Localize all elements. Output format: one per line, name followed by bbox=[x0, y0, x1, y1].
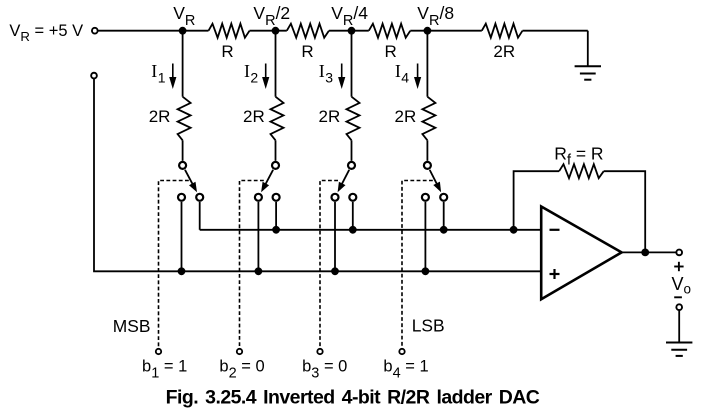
terminal bit b2 bbox=[237, 349, 242, 354]
wire branch 2 to switch pole bbox=[275, 140, 277, 161]
current arrow I1 bbox=[169, 64, 176, 90]
svg-text:VR/4: VR/4 bbox=[331, 3, 368, 29]
wire branch 1 to switch pole bbox=[182, 140, 184, 161]
wire branch 1 from rail bbox=[182, 31, 184, 97]
svg-text:R: R bbox=[221, 42, 233, 61]
terminal bit b1 bbox=[156, 349, 161, 354]
svg-text:VR/2: VR/2 bbox=[253, 3, 290, 29]
svg-text:2R: 2R bbox=[395, 107, 417, 126]
junction b4 on +bus bbox=[422, 267, 430, 275]
op-amp U1 bbox=[541, 207, 621, 300]
dashed control line bit b4 bbox=[402, 181, 433, 348]
junction b3 on -bus bbox=[349, 226, 357, 234]
svg-text:MSB: MSB bbox=[113, 316, 151, 336]
node VR/2 bbox=[272, 27, 280, 35]
current arrow I3 bbox=[338, 64, 345, 90]
wire b4 left throw to +bus bbox=[424, 202, 426, 271]
svg-text:3: 3 bbox=[325, 70, 333, 86]
svg-text:2R: 2R bbox=[243, 107, 265, 126]
resistor R (VR to VR/2) bbox=[209, 24, 250, 38]
svg-text:2: 2 bbox=[250, 70, 258, 86]
svg-text:I: I bbox=[395, 61, 401, 81]
resistor 2R branch 3 bbox=[347, 97, 360, 141]
svg-text:R: R bbox=[384, 42, 396, 61]
wire branch 2 from rail bbox=[275, 31, 277, 97]
node VR/4 bbox=[348, 27, 356, 35]
wire branch 3 to switch pole bbox=[351, 140, 353, 161]
wire non-inverting bus (+) bbox=[94, 79, 541, 272]
label + polarity bbox=[674, 266, 683, 268]
svg-text:2R: 2R bbox=[149, 107, 171, 126]
junction b2 on -bus bbox=[272, 226, 280, 234]
wire b1 right throw to -bus bbox=[199, 202, 201, 230]
resistor 2R branch 4 bbox=[422, 97, 435, 141]
wire top rail to ground bbox=[523, 30, 588, 32]
wire feedback left bbox=[514, 171, 560, 230]
svg-text:R: R bbox=[301, 42, 313, 61]
ground (ladder termination) bbox=[575, 31, 601, 80]
ground (output reference) bbox=[666, 310, 692, 356]
junction b2 on +bus bbox=[255, 267, 263, 275]
terminal Vo + bbox=[676, 250, 682, 256]
terminal VR supply input bbox=[92, 28, 98, 34]
node VR/8 bbox=[424, 27, 432, 35]
svg-text:I: I bbox=[319, 61, 325, 81]
node VR bbox=[179, 27, 187, 35]
svg-text:2R: 2R bbox=[319, 107, 341, 126]
wire op-amp output bbox=[622, 251, 677, 253]
wire feedback right bbox=[604, 171, 646, 252]
wire top rail VR node segment bbox=[98, 30, 209, 32]
resistor 2R branch 1 bbox=[178, 97, 191, 141]
terminal +bus left bbox=[91, 73, 97, 79]
svg-text:1: 1 bbox=[158, 70, 166, 86]
svg-text:Fig. 3.25.4 Inverted 4-bit R/2: Fig. 3.25.4 Inverted 4-bit R/2R ladder D… bbox=[166, 387, 540, 409]
dashed control line bit b2 bbox=[240, 181, 264, 348]
resistor R (VR/2 to VR/4) bbox=[287, 24, 329, 38]
wire b3 left throw to +bus bbox=[334, 202, 336, 271]
wire top rail segment VR/2 bbox=[250, 30, 287, 32]
wire branch 3 from rail bbox=[351, 31, 353, 97]
switch S4 (bit b4) bbox=[422, 162, 447, 201]
svg-text:LSB: LSB bbox=[412, 316, 445, 336]
wire branch 4 to switch pole bbox=[426, 140, 428, 161]
svg-text:Vo: Vo bbox=[672, 274, 692, 297]
wire b3 right throw to -bus bbox=[352, 202, 354, 230]
junction feedback tap on -bus bbox=[510, 226, 518, 234]
current arrow I2 bbox=[262, 64, 269, 90]
svg-text:2R: 2R bbox=[493, 42, 515, 61]
resistor 2R terminating bbox=[482, 24, 523, 38]
svg-text:VR/8: VR/8 bbox=[417, 3, 454, 29]
wire b1 left throw to +bus bbox=[181, 202, 183, 271]
wire b2 right throw to -bus bbox=[275, 202, 277, 230]
wire branch 4 from rail bbox=[426, 31, 428, 97]
svg-text:b2 = 0: b2 = 0 bbox=[219, 357, 264, 381]
svg-text:I: I bbox=[151, 61, 157, 81]
svg-text:b3 = 0: b3 = 0 bbox=[302, 357, 347, 381]
terminal bit b3 bbox=[317, 349, 322, 354]
svg-text:VR = +5 V: VR = +5 V bbox=[9, 22, 83, 44]
wire b2 left throw to +bus bbox=[257, 202, 259, 271]
junction b3 on +bus bbox=[331, 267, 339, 275]
junction b1 on +bus bbox=[178, 267, 186, 275]
switch S1 (bit b1) bbox=[178, 162, 203, 201]
terminal Vo - bbox=[676, 304, 682, 310]
junction output node bbox=[641, 249, 649, 257]
svg-text:VR: VR bbox=[173, 3, 195, 29]
svg-text:Rf = R: Rf = R bbox=[554, 143, 603, 168]
switch S3 (bit b3) bbox=[332, 162, 357, 201]
dashed control line bit b3 bbox=[320, 181, 338, 348]
switch S2 (bit b2) bbox=[255, 162, 280, 201]
terminal bit b4 bbox=[399, 349, 404, 354]
svg-text:b1 = 1: b1 = 1 bbox=[142, 357, 187, 381]
junction b4 on -bus bbox=[440, 226, 448, 234]
resistor Rf feedback bbox=[559, 164, 604, 178]
wire top rail segment VR/8 bbox=[410, 30, 482, 32]
resistor 2R branch 2 bbox=[271, 97, 284, 141]
wire b4 right throw to -bus bbox=[443, 202, 445, 230]
dashed control line bit b1 bbox=[159, 181, 189, 348]
svg-text:4: 4 bbox=[401, 70, 409, 86]
current arrow I4 bbox=[414, 64, 421, 90]
svg-text:b4 = 1: b4 = 1 bbox=[383, 357, 428, 381]
resistor R (VR/4 to VR/8) bbox=[369, 24, 411, 38]
label - polarity bbox=[674, 296, 682, 298]
svg-text:I: I bbox=[244, 61, 250, 81]
wire top rail segment VR/4 bbox=[329, 30, 369, 32]
wire inverting bus (-) bbox=[200, 229, 542, 231]
